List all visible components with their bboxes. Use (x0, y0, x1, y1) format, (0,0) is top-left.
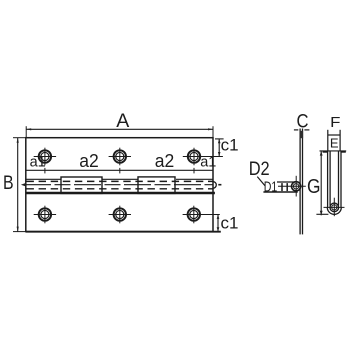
svg-text:A: A (116, 110, 129, 132)
svg-text:G: G (307, 176, 321, 198)
svg-text:E: E (330, 136, 339, 151)
svg-text:a1: a1 (30, 155, 46, 171)
svg-text:c1: c1 (221, 213, 239, 232)
svg-text:D1: D1 (264, 178, 278, 195)
svg-text:a1: a1 (200, 154, 216, 170)
svg-text:a2: a2 (155, 151, 175, 171)
svg-text:C: C (297, 111, 309, 133)
svg-text:F: F (330, 115, 340, 131)
svg-text:B: B (3, 173, 14, 194)
svg-text:D2: D2 (249, 158, 270, 180)
svg-text:a2: a2 (79, 151, 99, 171)
svg-text:c1: c1 (221, 136, 239, 155)
